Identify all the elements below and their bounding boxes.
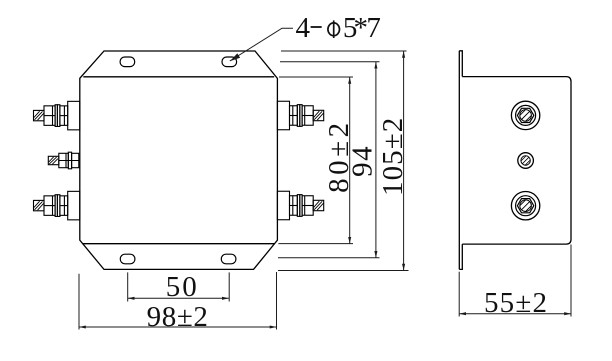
svg-text:50: 50 [166, 271, 199, 303]
svg-text:7: 7 [366, 12, 381, 44]
svg-text:98±2: 98±2 [147, 301, 209, 333]
svg-text:94: 94 [346, 145, 378, 177]
svg-text:105±2: 105±2 [377, 117, 409, 196]
svg-text:4: 4 [296, 12, 311, 44]
svg-text:55±2: 55±2 [484, 287, 548, 319]
